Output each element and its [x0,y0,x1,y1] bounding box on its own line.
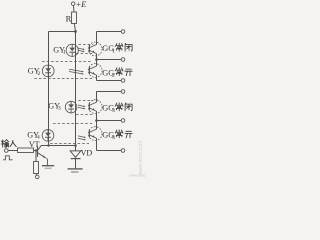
resistor R [72,12,77,24]
terminal +E [71,2,75,6]
optical path 4 bottom [50,143,89,145]
wire output GG2 emitter [97,80,122,82]
wire bottom cross [41,145,76,147]
junction left chain bottom [47,144,49,146]
wire +E to R [73,6,76,13]
svg-text:R: R [66,14,72,24]
phototransistor GG4 [88,127,102,141]
svg-text:VT: VT [29,140,40,149]
wire GG2 collector [96,60,98,67]
resistor R2 (base) [18,148,34,153]
optical path 1 bottom [76,53,92,55]
light arrows GY3-GG3 [78,105,86,109]
svg-text:1: 1 [63,50,66,56]
wire base to R3 [35,151,37,162]
terminal GG2 emitter [121,79,125,83]
wire R to junction [74,24,75,32]
terminal input [5,149,9,153]
light arrows GY4-GG4 [78,136,86,141]
light arrows GY1-GG1 [78,48,85,52]
wire output GG1/GG2 common [97,59,122,61]
optical path 2 bottom [34,78,92,80]
terminal GG1/GG2 common [121,58,125,62]
optical path 2 top [42,61,92,63]
terminal GG3 collector [121,90,125,94]
optical path 1 top [78,44,93,46]
transistor VT [38,146,47,159]
wire output GG4 emitter [97,150,122,152]
terminal input return [35,175,39,179]
junction GG1-GG2 [95,58,98,61]
wire R2 to VT base [34,150,38,152]
wire output GG3/GG4 common [97,120,122,122]
wire input to R2 [8,150,17,152]
optical path 3 bottom [76,114,92,116]
LED GY1 [66,44,78,56]
svg-text:VD: VD [81,148,93,157]
wire GG3 emitter [96,111,98,120]
terminal GG3/GG4 common [121,119,125,123]
wire left chain [48,32,50,146]
light arrows GY2-GG2 [69,69,84,74]
LED GY2 [42,65,54,77]
resistor R3 (pull-down) [34,162,39,174]
label 输入 [1,140,8,148]
wire R3 to terminal [35,174,38,176]
terminal GG4 emitter [121,149,125,153]
junction VD node [74,144,77,147]
svg-text:www.dzsc.com: www.dzsc.com [130,173,147,177]
wire output GG3 collector [97,91,122,93]
wire GG1 emitter [96,54,98,60]
junction VT base [35,149,37,151]
svg-text:www.dzsc.com: www.dzsc.com [138,141,144,175]
wire GG3 collector [96,92,98,103]
ground (VT emitter) [42,159,54,169]
junction node top [74,30,77,33]
LED GY4 [42,130,54,142]
svg-text:1: 1 [112,48,115,54]
svg-text:2: 2 [38,71,41,77]
svg-text:+E: +E [76,0,87,9]
junction GG3-GG4 [95,119,98,122]
wire output GG1 collector [97,31,122,33]
ground (VD) [68,169,83,172]
optical path 3 top [78,100,93,102]
svg-text:2: 2 [112,73,115,79]
wire GG4 collector [96,121,98,130]
phototransistor GG1 [88,42,102,56]
svg-text:3: 3 [58,106,61,112]
input pulse symbol [3,156,13,160]
terminal GG1 collector [121,30,125,34]
optical path 4 top [53,123,92,125]
phototransistor GG3 [88,100,102,114]
wire GG4 emitter [96,138,98,150]
wire GG1 collector [96,32,98,45]
diode VD [70,151,81,169]
svg-text:4: 4 [112,135,115,141]
wire right chain [75,32,77,151]
svg-text:3: 3 [112,108,115,114]
LED GY3 [65,101,77,113]
phototransistor GG2 [88,64,102,78]
wire GG2 emitter [96,75,98,81]
wire top cross [49,31,76,33]
